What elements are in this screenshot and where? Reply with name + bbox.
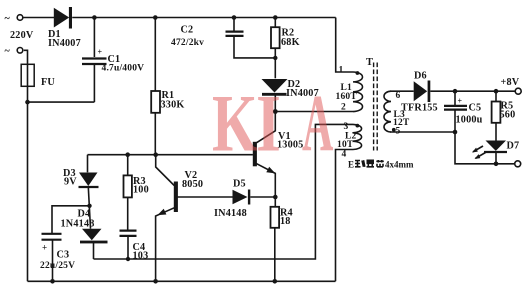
node R4 bottom <box>273 279 278 284</box>
svg-text:I: I <box>256 77 281 168</box>
node C3 bottom <box>50 279 55 284</box>
svg-text:1N4148: 1N4148 <box>61 219 95 230</box>
resistor R3 <box>124 155 149 230</box>
wire pin2 <box>275 111 353 113</box>
svg-text:D7: D7 <box>507 141 520 152</box>
node R1 top <box>153 15 158 20</box>
node R1/V2 collector <box>153 152 158 157</box>
diode D6 <box>401 71 438 114</box>
resistor R5 <box>492 91 516 140</box>
winding L3 <box>384 91 410 137</box>
svg-text:3: 3 <box>344 122 349 132</box>
wire top rail left <box>24 17 55 19</box>
svg-text:160T: 160T <box>336 92 358 102</box>
wire pin6 <box>390 90 414 92</box>
svg-text:10T: 10T <box>337 140 354 150</box>
diode D4 <box>61 209 108 260</box>
fuse FU <box>21 64 55 88</box>
wire C1 bottom to fuse node <box>28 101 95 103</box>
svg-text:4: 4 <box>342 150 347 160</box>
svg-text:9V: 9V <box>64 177 77 188</box>
wire C3 branch <box>52 206 90 233</box>
node collector/pin2 <box>273 109 278 114</box>
capacitor C1 <box>82 18 144 103</box>
node R5 top <box>494 89 499 94</box>
capacitor C4 <box>120 231 149 262</box>
svg-text:68K: 68K <box>281 37 300 48</box>
svg-text:C5: C5 <box>469 103 482 114</box>
svg-text:8050: 8050 <box>182 179 203 190</box>
terminal +8V <box>501 77 522 94</box>
svg-text:A: A <box>302 79 333 169</box>
svg-text:4.7u/400V: 4.7u/400V <box>102 64 145 74</box>
node C1 top <box>92 15 97 20</box>
label E core <box>348 160 414 170</box>
node C2 top <box>232 15 237 20</box>
svg-text:+: + <box>98 48 103 57</box>
winding L2 <box>337 122 362 160</box>
wire secondary return <box>455 132 514 164</box>
node C4 bottom <box>126 257 130 261</box>
svg-text:~: ~ <box>5 46 11 57</box>
node D5/V1 emitter <box>273 195 278 200</box>
svg-text:13005: 13005 <box>277 140 303 151</box>
diode D5 <box>214 179 275 220</box>
svg-text:220V: 220V <box>10 30 34 41</box>
wire pin5 <box>390 131 455 133</box>
svg-text:D5: D5 <box>233 179 246 190</box>
wire V1 base rail <box>88 154 253 156</box>
svg-text:+: + <box>458 97 463 106</box>
resistor R4 <box>271 207 293 281</box>
svg-text:IN4148: IN4148 <box>214 208 247 219</box>
winding L1 <box>336 66 363 113</box>
svg-text:TFR155: TFR155 <box>401 103 438 114</box>
watermark KIA <box>212 77 333 169</box>
svg-text:18: 18 <box>280 216 291 227</box>
svg-text:~: ~ <box>5 14 11 25</box>
node R3 top <box>125 152 130 157</box>
capacitor C3 <box>40 234 75 281</box>
svg-text:IN4007: IN4007 <box>48 38 81 49</box>
capacitor C5 <box>444 91 483 132</box>
transistor V1 <box>253 112 304 207</box>
node V2 emitter bottom <box>153 279 158 284</box>
diode D1 <box>48 7 81 49</box>
node D7 bottom <box>494 162 499 167</box>
resistor R1 <box>151 18 184 155</box>
wire D3 to D4 <box>88 187 90 229</box>
node C5 top <box>453 89 458 94</box>
zener D3 <box>63 155 99 188</box>
node C5 bottom <box>453 130 458 135</box>
svg-text:4x4mm: 4x4mm <box>385 160 414 170</box>
svg-text:330K: 330K <box>161 100 185 111</box>
wire bottom rail <box>28 280 336 282</box>
svg-text:1: 1 <box>339 66 344 76</box>
svg-text:K: K <box>212 78 258 169</box>
svg-text:D6: D6 <box>414 71 427 82</box>
node R2 top <box>273 15 278 20</box>
transistor V2 <box>156 155 233 282</box>
wire top rail <box>72 17 336 19</box>
node fuse/C1 junction <box>25 100 30 105</box>
svg-text:C3: C3 <box>57 250 70 261</box>
terminal AC top (~) <box>5 14 23 25</box>
wire from lower terminal <box>24 50 28 281</box>
svg-text:T: T <box>366 57 373 68</box>
svg-text:472/2kv: 472/2kv <box>171 38 204 48</box>
wire pin4 <box>336 150 354 282</box>
svg-text:+8V: +8V <box>501 77 520 88</box>
terminal AC bottom (~) <box>5 46 23 57</box>
node C2/R2 junction <box>273 56 277 60</box>
node C3 branch <box>87 204 91 208</box>
transformer core <box>374 63 378 151</box>
svg-text:1000u: 1000u <box>456 115 483 126</box>
LED D7 <box>472 141 519 164</box>
svg-text:6: 6 <box>396 91 401 101</box>
terminal output minus <box>515 161 521 167</box>
wire aux return <box>94 124 354 259</box>
svg-text:FU: FU <box>41 77 55 88</box>
capacitor C2 <box>171 18 275 58</box>
svg-text:100: 100 <box>133 185 149 196</box>
diode D2 <box>262 79 319 112</box>
svg-text:E: E <box>348 160 354 170</box>
svg-text:560: 560 <box>500 110 516 121</box>
svg-text:2: 2 <box>341 103 346 113</box>
svg-text:C2: C2 <box>181 25 194 36</box>
svg-text:22u/25V: 22u/25V <box>40 261 75 271</box>
svg-text:103: 103 <box>133 251 149 262</box>
wire to transformer pin1 <box>336 18 353 73</box>
resistor R2 <box>271 18 300 79</box>
wire D6 to +8V <box>430 90 515 92</box>
svg-text:+: + <box>42 243 47 253</box>
